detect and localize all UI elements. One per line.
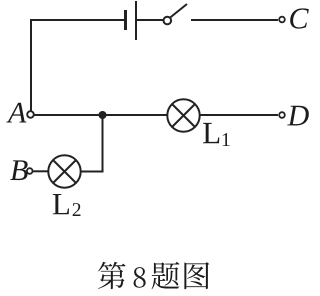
- lamp L1 circle: [167, 99, 199, 131]
- caption char 第: [98, 262, 126, 289]
- wire top horizontal (corner to battery): [30, 19, 124, 21]
- battery plate positive long: [135, 1, 137, 40]
- junction node dot: [99, 111, 107, 119]
- terminal C circle: [279, 17, 285, 23]
- wire battery to switch: [137, 19, 163, 21]
- lamp L2 cross: [53, 160, 76, 183]
- caption char 图: [184, 262, 209, 289]
- label A: [6, 103, 26, 123]
- label C: [290, 8, 309, 28]
- wire terminal B to lamp L2: [33, 170, 49, 172]
- label D: [287, 106, 309, 126]
- battery plate negative short: [124, 10, 127, 30]
- wire lamp L1 to terminal D: [200, 114, 278, 116]
- label B: [10, 160, 27, 180]
- wire lamp L2 branch horizontal: [81, 171, 104, 173]
- caption char 8: [134, 267, 146, 288]
- switch pivot circle: [164, 17, 172, 25]
- wire junction down to lamp L2 branch: [102, 115, 104, 171]
- label L2: [53, 194, 81, 216]
- lamp L1 cross: [172, 104, 195, 127]
- caption char 题: [152, 262, 180, 289]
- terminal D circle: [279, 112, 285, 118]
- switch lever arm: [170, 4, 187, 18]
- lamp L2 circle: [48, 155, 80, 187]
- label L1: [203, 123, 229, 146]
- wire left vertical (top corner down to A): [30, 21, 32, 111]
- terminal B circle: [27, 168, 33, 174]
- wire A to junction to lamp L1: [34, 114, 167, 116]
- wire switch to terminal C: [191, 19, 278, 21]
- terminal A circle: [27, 111, 34, 118]
